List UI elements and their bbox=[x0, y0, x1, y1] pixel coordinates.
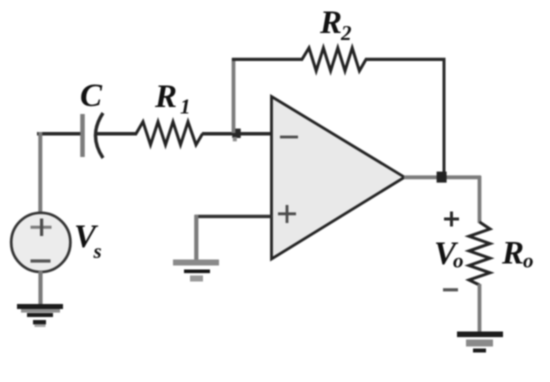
svg-text:R: R bbox=[501, 236, 524, 272]
svg-text:1: 1 bbox=[180, 95, 191, 119]
svg-text:R: R bbox=[154, 79, 177, 115]
wire: feedback top horizontal left bbox=[232, 58, 303, 61]
resistor R2 bbox=[302, 48, 366, 71]
wire: feedback down to output node bbox=[443, 58, 446, 177]
label R2 bbox=[319, 5, 352, 45]
svg-text:C: C bbox=[80, 78, 103, 114]
wire: capacitor to R1 bbox=[97, 132, 137, 136]
voltage source Vs bbox=[11, 213, 70, 272]
ground (noninverting input) bbox=[173, 260, 219, 282]
wire: Ro to ground bbox=[478, 284, 482, 334]
svg-text:R: R bbox=[319, 5, 342, 41]
label Vo bbox=[434, 236, 464, 273]
capacitor C bbox=[83, 113, 104, 158]
label + polarity of Vo bbox=[444, 212, 459, 227]
ground (Ro) bbox=[457, 332, 503, 353]
label − polarity of Vo bbox=[443, 288, 458, 291]
wire: R1 to op-amp inverting input bbox=[202, 132, 271, 136]
op-amp U1 bbox=[272, 97, 405, 260]
resistor R1 bbox=[136, 122, 203, 145]
op-amp noninverting input symbol bbox=[278, 205, 296, 223]
op-amp inverting input symbol bbox=[280, 136, 298, 139]
ground (source) bbox=[17, 304, 63, 327]
node: inverting input junction bbox=[232, 129, 241, 138]
wire: feedback top horizontal right bbox=[365, 58, 446, 61]
svg-text:2: 2 bbox=[340, 21, 352, 45]
label Vs bbox=[74, 219, 102, 263]
wire: source to ground bbox=[38, 271, 42, 306]
resistor Ro bbox=[469, 222, 490, 285]
label R1 bbox=[154, 79, 191, 119]
wire: input horizontal from source corner to capacitor bbox=[37, 132, 82, 136]
wire: noninverting input to ground bbox=[195, 215, 273, 261]
wire: output node down stub to Ro bbox=[478, 176, 482, 223]
label Ro bbox=[501, 236, 534, 273]
svg-text:o: o bbox=[523, 249, 534, 273]
wire: op-amp output bbox=[404, 175, 481, 179]
wire: source up to capacitor corner bbox=[38, 132, 42, 214]
node: output junction bbox=[437, 172, 447, 183]
wire: node up to feedback branch bbox=[232, 58, 236, 133]
svg-text:o: o bbox=[453, 249, 464, 273]
svg-text:s: s bbox=[93, 239, 102, 263]
